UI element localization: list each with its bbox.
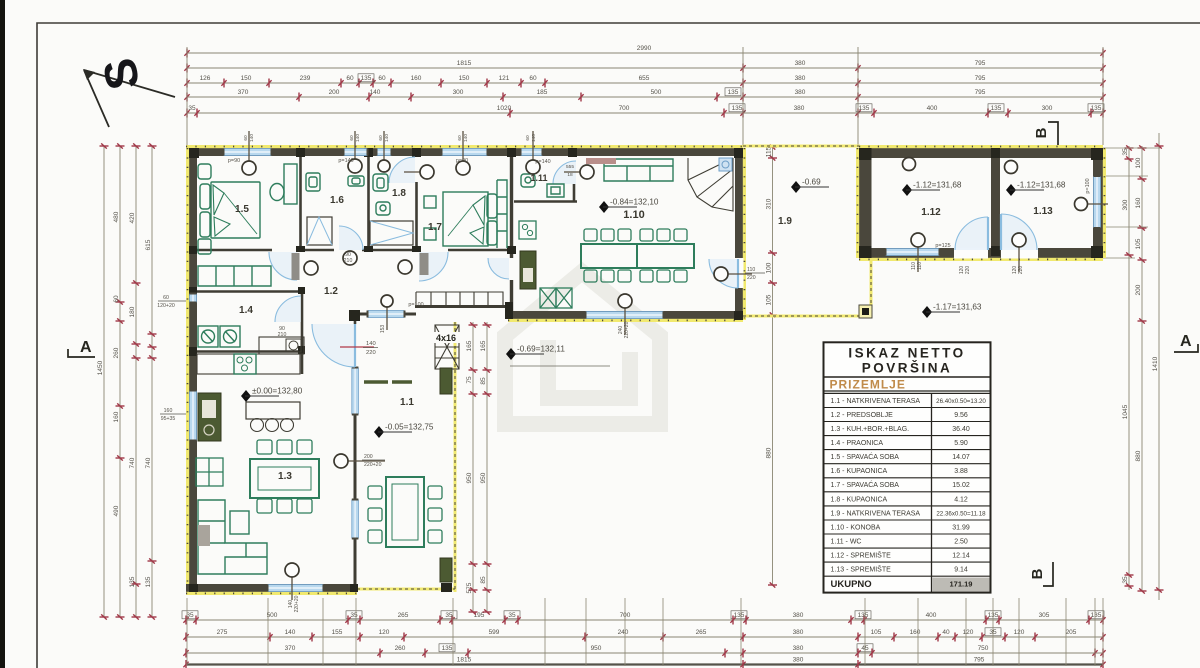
svg-text:240: 240	[618, 629, 629, 636]
interior wall 1.4 top	[195, 290, 302, 293]
svg-text:155: 155	[332, 629, 343, 636]
dimension row bottom chain2	[183, 629, 1105, 642]
svg-text:1045: 1045	[1122, 404, 1129, 419]
svg-text:85: 85	[480, 377, 487, 385]
svg-text:B: B	[1033, 127, 1050, 138]
svg-text:160: 160	[113, 411, 120, 422]
window 1.3 bottom	[267, 585, 325, 592]
svg-text:1.12: 1.12	[921, 207, 941, 218]
bed room 1.5	[211, 182, 260, 238]
svg-text:1.8 - KUPAONICA: 1.8 - KUPAONICA	[831, 496, 888, 503]
svg-text:200: 200	[364, 454, 373, 460]
svg-text:880: 880	[1135, 450, 1142, 461]
svg-text:115: 115	[765, 146, 772, 157]
elevation flag -1.17	[922, 303, 982, 319]
interior wall corridor bottom	[350, 313, 368, 316]
svg-text:95+35: 95+35	[161, 416, 176, 422]
boxed small dims	[358, 74, 374, 82]
svg-text:1.10 - KONOBA: 1.10 - KONOBA	[831, 524, 881, 531]
window 1.12 bottom	[885, 249, 941, 256]
svg-text:105: 105	[765, 294, 772, 305]
svg-text:420: 420	[129, 212, 136, 223]
sink 1.6	[348, 176, 364, 186]
svg-text:1.3 - KUH.+BOR.+BLAG.: 1.3 - KUH.+BOR.+BLAG.	[831, 426, 910, 433]
window 1.3/1.1 lower	[352, 499, 359, 540]
section marker B top	[1033, 122, 1058, 146]
svg-text:700: 700	[619, 105, 630, 112]
svg-text:950: 950	[466, 472, 473, 483]
door wc 1.11	[553, 161, 576, 184]
svg-text:135: 135	[1091, 612, 1102, 619]
svg-text:300: 300	[453, 89, 464, 96]
extension lines storage right	[1103, 147, 1160, 149]
door room 1.8	[389, 157, 415, 183]
svg-text:35: 35	[350, 612, 358, 619]
wardrobe 1.5	[198, 266, 271, 286]
svg-text:599: 599	[489, 629, 500, 636]
svg-text:380: 380	[795, 60, 806, 67]
svg-text:220+20: 220+20	[624, 321, 630, 338]
svg-text:14.07: 14.07	[952, 454, 970, 461]
storage building walls	[859, 148, 1103, 158]
svg-text:305: 305	[1039, 612, 1050, 619]
svg-text:1.8: 1.8	[392, 188, 406, 199]
bed room 1.7	[443, 192, 488, 246]
svg-text:160: 160	[411, 75, 422, 82]
svg-text:1.4: 1.4	[239, 305, 253, 316]
interior wall 1.6/1.8	[367, 156, 370, 250]
svg-text:35: 35	[445, 612, 453, 619]
kitchen hob nook 1.10	[519, 221, 536, 239]
svg-text:p=100: p=100	[408, 302, 423, 308]
svg-text:p=125: p=125	[935, 243, 950, 249]
svg-text:140: 140	[249, 134, 255, 142]
exterior wall right (konoba)	[735, 148, 743, 320]
door storage 1.12	[955, 217, 988, 250]
dimension row top 1815-380-795	[184, 60, 1105, 73]
svg-text:153: 153	[380, 325, 386, 334]
svg-text:60: 60	[243, 135, 249, 141]
svg-text:-1.17=131,63: -1.17=131,63	[933, 303, 982, 312]
terrace 1.9 corner post	[859, 305, 872, 318]
svg-text:1.11 - WC: 1.11 - WC	[831, 538, 862, 545]
svg-text:135: 135	[145, 576, 152, 587]
dimension row bottom chain3	[183, 645, 1105, 658]
dresser 1.5	[284, 164, 297, 204]
bidet 1.8	[376, 202, 390, 215]
svg-text:380: 380	[795, 89, 806, 96]
svg-text:140: 140	[355, 134, 361, 142]
svg-text:40: 40	[942, 629, 950, 636]
svg-text:1.5 - SPAVAĆA SOBA: 1.5 - SPAVAĆA SOBA	[831, 452, 900, 461]
toilet wc 1.11	[521, 174, 535, 187]
svg-text:300: 300	[1042, 105, 1053, 112]
svg-text:740: 740	[129, 457, 136, 468]
terrace posts	[440, 368, 452, 394]
svg-text:1.1 - NATKRIVENA TERASA: 1.1 - NATKRIVENA TERASA	[831, 398, 921, 405]
svg-text:480: 480	[113, 211, 120, 222]
svg-text:400: 400	[927, 105, 938, 112]
svg-text:310: 310	[765, 198, 772, 209]
svg-text:A: A	[1180, 333, 1192, 350]
svg-text:9.56: 9.56	[954, 412, 968, 419]
svg-text:210: 210	[278, 332, 287, 338]
svg-text:1.11: 1.11	[530, 173, 547, 183]
kitchen tall unit 1.3	[198, 393, 221, 441]
svg-text:795: 795	[975, 89, 986, 96]
interior wall 1.4 right	[301, 292, 304, 375]
svg-text:220: 220	[965, 266, 971, 275]
fridge unit 1.3	[196, 458, 223, 486]
wardrobe corridor	[416, 292, 503, 305]
svg-text:220: 220	[1018, 266, 1024, 275]
stair 4x16	[435, 325, 459, 369]
exterior wall bottom konoba	[508, 311, 743, 319]
svg-text:26.40x0.50=13.20: 26.40x0.50=13.20	[936, 398, 986, 405]
dimension col mid terrace-left b	[480, 322, 492, 615]
door storage 1.13	[1001, 214, 1037, 250]
svg-text:120: 120	[379, 629, 390, 636]
svg-text:120+20: 120+20	[157, 303, 175, 309]
stove 1.3	[234, 354, 256, 374]
svg-text:1450: 1450	[97, 360, 104, 375]
svg-text:35: 35	[1122, 148, 1129, 156]
dimension col mid terrace 1.9	[765, 144, 777, 587]
svg-text:135: 135	[442, 645, 453, 652]
svg-text:105: 105	[871, 629, 882, 636]
svg-text:615: 615	[145, 239, 152, 250]
elevation flag -0.05	[374, 423, 434, 439]
svg-text:-0.84=132,10: -0.84=132,10	[610, 198, 659, 207]
chairs 1.10	[584, 229, 597, 241]
svg-text:A: A	[80, 339, 92, 356]
svg-text:4x16: 4x16	[436, 333, 456, 343]
svg-text:400: 400	[926, 612, 937, 619]
wall pillars	[189, 148, 199, 158]
svg-text:1.7 - SPAVAĆA SOBA: 1.7 - SPAVAĆA SOBA	[831, 480, 900, 489]
dimension row bottom 1815	[183, 657, 1105, 668]
svg-text:-0.05=132,75: -0.05=132,75	[385, 423, 434, 432]
terrace 1.9 dashed boundary	[743, 146, 872, 316]
sofa 1.10	[604, 159, 673, 181]
svg-text:185: 185	[537, 89, 548, 96]
svg-text:380: 380	[793, 612, 804, 619]
svg-text:85: 85	[480, 576, 487, 584]
svg-text:195: 195	[474, 612, 485, 619]
svg-text:60: 60	[163, 295, 169, 301]
svg-text:5.90: 5.90	[954, 440, 968, 447]
svg-text:100: 100	[765, 262, 772, 273]
exterior wall top (house)	[186, 148, 743, 156]
svg-text:220+20: 220+20	[294, 595, 300, 612]
sofa 1.3	[198, 500, 267, 574]
extension lines top	[186, 47, 188, 145]
svg-text:220+20: 220+20	[364, 462, 382, 468]
svg-text:1020: 1020	[497, 105, 512, 112]
svg-text:150: 150	[241, 75, 252, 82]
interior wall 1.7/1.10	[510, 156, 513, 258]
svg-text:210: 210	[344, 258, 353, 264]
svg-text:950: 950	[480, 472, 487, 483]
svg-text:300: 300	[1122, 199, 1129, 210]
svg-text:380: 380	[793, 629, 804, 636]
svg-text:490: 490	[113, 505, 120, 516]
svg-text:35: 35	[1122, 576, 1129, 584]
window 1.11 top	[520, 149, 544, 156]
plant boxes 1.10	[540, 288, 572, 308]
svg-text:160: 160	[910, 629, 921, 636]
svg-text:1815: 1815	[457, 657, 472, 664]
door entrance	[312, 324, 355, 367]
dining table 1.3	[250, 459, 319, 498]
elevation flag -0.69 132,11	[506, 345, 610, 367]
tv shelf smudge 1.10	[586, 158, 616, 164]
svg-text:2.50: 2.50	[954, 538, 968, 545]
interior wall 1.3/1.1	[354, 310, 357, 324]
svg-text:880: 880	[765, 447, 772, 458]
svg-text:PRIZEMLJE: PRIZEMLJE	[830, 378, 906, 392]
area table ISKAZ NETTO POVRSINA	[824, 342, 991, 592]
interior wall 1.8/1.7	[415, 182, 418, 250]
elevation flag -0.84	[599, 198, 659, 214]
dimension col right 1410	[1152, 133, 1164, 600]
svg-text:p=100: p=100	[1085, 178, 1091, 193]
bench dashes 1.1	[364, 380, 412, 384]
svg-text:140: 140	[285, 629, 296, 636]
window corridor left	[190, 293, 197, 304]
svg-text:-0.69: -0.69	[802, 178, 821, 187]
svg-text:135: 135	[859, 105, 870, 112]
svg-text:1.6: 1.6	[330, 195, 344, 206]
svg-text:260: 260	[113, 347, 120, 358]
drain box 1.10	[719, 158, 732, 171]
section marker A left	[68, 339, 95, 357]
svg-text:165: 165	[480, 340, 487, 351]
svg-text:35: 35	[508, 612, 516, 619]
interior wall bedrooms bottom	[195, 249, 272, 252]
svg-text:p=140: p=140	[338, 158, 353, 164]
window 1.13 right	[1094, 175, 1101, 229]
dimension row top 1020-700	[184, 105, 1105, 118]
door 1.10 terrace	[709, 259, 738, 288]
svg-text:126: 126	[200, 75, 211, 82]
svg-text:p=90: p=90	[228, 158, 240, 164]
svg-text:200: 200	[1135, 284, 1142, 295]
svg-text:POVRŠINA: POVRŠINA	[862, 361, 953, 376]
door room 1.7	[419, 252, 448, 281]
window 1.7 top	[441, 149, 489, 156]
svg-text:1.7: 1.7	[428, 222, 442, 233]
svg-text:950: 950	[591, 645, 602, 652]
chairs 1.1	[368, 486, 382, 499]
interior wall 1.5/1.6	[299, 156, 302, 250]
terrace 1.1 dashed boundary	[357, 322, 455, 592]
svg-text:1.2 - PREDSOBLJE: 1.2 - PREDSOBLJE	[831, 412, 894, 419]
svg-text:740: 740	[145, 457, 152, 468]
svg-text:2990: 2990	[637, 45, 652, 52]
svg-text:275: 275	[217, 629, 228, 636]
elevation flag -1.12 b	[1006, 181, 1066, 197]
wardrobe 1.7	[497, 180, 507, 248]
svg-text:110: 110	[747, 267, 755, 273]
svg-text:1.12 - SPREMIŠTE: 1.12 - SPREMIŠTE	[831, 551, 892, 560]
svg-text:1.5: 1.5	[235, 204, 249, 215]
svg-text:15.02: 15.02	[952, 482, 970, 489]
dimension col left 1450	[97, 143, 109, 619]
svg-text:1.9: 1.9	[778, 216, 792, 227]
door room 1.5	[269, 252, 297, 280]
dimension col right 100-chain	[1135, 145, 1147, 593]
svg-text:p=140: p=140	[535, 159, 550, 165]
window 1.3 left	[190, 390, 197, 442]
svg-text:9.14: 9.14	[954, 567, 968, 574]
window 1.3/1.1 upper	[352, 367, 359, 416]
section marker A right	[1174, 333, 1198, 352]
svg-text:1.3: 1.3	[278, 471, 292, 482]
dimension row top 370-chain	[184, 89, 1105, 102]
svg-text:205: 205	[1066, 629, 1077, 636]
svg-text:1.1: 1.1	[400, 397, 414, 408]
svg-text:795: 795	[974, 657, 985, 664]
washing machines 1.4	[198, 326, 240, 347]
svg-text:UKUPNO: UKUPNO	[831, 579, 872, 590]
elevation flag -1.12 a	[902, 181, 962, 197]
svg-text:12.14: 12.14	[952, 553, 970, 560]
svg-text:1815: 1815	[457, 60, 472, 67]
svg-text:1.13: 1.13	[1033, 206, 1053, 217]
storage partition wall	[991, 158, 1000, 248]
svg-text:ISKAZ NETTO: ISKAZ NETTO	[848, 346, 965, 361]
svg-text:-1.12=131,68: -1.12=131,68	[913, 181, 962, 190]
svg-text:750: 750	[978, 645, 989, 652]
svg-text:35: 35	[186, 612, 194, 619]
svg-text:1.13 - SPREMIŠTE: 1.13 - SPREMIŠTE	[831, 565, 892, 574]
window 1.5 top	[223, 149, 273, 156]
svg-text:555: 555	[566, 164, 574, 170]
sink wc 1.11	[547, 184, 564, 197]
dimension col left 420-chain	[129, 143, 141, 619]
dimension col mid terrace-left a	[466, 322, 478, 615]
shower 1.6	[306, 173, 320, 191]
window 1.10 bottom	[585, 312, 665, 319]
svg-text:B: B	[1029, 568, 1046, 579]
svg-text:1.2: 1.2	[324, 286, 338, 297]
svg-text:135: 135	[732, 105, 743, 112]
dimension row top 2990	[184, 45, 1105, 58]
svg-text:60: 60	[457, 135, 463, 141]
svg-text:18: 18	[567, 172, 573, 178]
svg-text:60: 60	[349, 135, 355, 141]
window 1.6 top	[343, 149, 369, 156]
svg-text:100: 100	[1135, 157, 1142, 168]
svg-text:60: 60	[529, 75, 537, 82]
svg-text:795: 795	[975, 60, 986, 67]
svg-text:140: 140	[463, 134, 469, 142]
svg-text:380: 380	[794, 105, 805, 112]
svg-text:135: 135	[129, 576, 136, 587]
svg-text:135: 135	[858, 612, 869, 619]
svg-text:22.36x0.50=11.18: 22.36x0.50=11.18	[936, 510, 986, 517]
svg-text:110: 110	[917, 262, 923, 270]
svg-text:140: 140	[384, 134, 390, 142]
exterior wall bottom left wing	[186, 584, 357, 592]
north arrow S	[83, 54, 175, 127]
door 1.4	[275, 296, 301, 322]
svg-text:180: 180	[129, 306, 136, 317]
svg-text:121: 121	[499, 75, 510, 82]
svg-text:380: 380	[795, 75, 806, 82]
svg-text:60: 60	[346, 75, 354, 82]
svg-text:75: 75	[466, 376, 473, 384]
svg-text:120: 120	[963, 629, 974, 636]
svg-text:1410: 1410	[1152, 356, 1159, 371]
svg-text:380: 380	[793, 657, 804, 664]
svg-text:265: 265	[696, 629, 707, 636]
dimension col left 615-chain	[145, 143, 157, 619]
door room 1.6	[339, 226, 363, 250]
svg-text:135: 135	[1091, 105, 1102, 112]
svg-text:60: 60	[525, 135, 531, 141]
svg-text:1.4 - PRAONICA: 1.4 - PRAONICA	[831, 440, 884, 447]
window 1.8 top	[376, 149, 393, 156]
shower tray 1.6	[307, 217, 332, 245]
svg-text:370: 370	[285, 645, 296, 652]
dimension col right 1045	[1122, 145, 1134, 590]
dimension row bottom chain1	[183, 612, 1105, 625]
interior wall wc 1.11	[514, 200, 577, 203]
svg-text:1.10: 1.10	[623, 209, 644, 221]
svg-text:370: 370	[238, 89, 249, 96]
svg-text:171.19: 171.19	[950, 580, 973, 589]
chairs 1.3	[257, 440, 272, 454]
dimension col left 480-chain	[113, 143, 125, 619]
svg-text:220: 220	[747, 275, 756, 281]
interior wall 1.4 bottom	[189, 350, 304, 353]
svg-text:655: 655	[639, 75, 650, 82]
svg-text:795: 795	[975, 75, 986, 82]
svg-text:p=90: p=90	[456, 158, 468, 164]
laundry counter sink	[259, 337, 304, 354]
svg-text:150: 150	[459, 75, 470, 82]
svg-text:500: 500	[651, 89, 662, 96]
svg-text:-1.12=131,68: -1.12=131,68	[1017, 181, 1066, 190]
svg-text:4.12: 4.12	[954, 496, 968, 503]
toilet 1.8 top	[373, 174, 388, 191]
svg-text:239: 239	[300, 75, 311, 82]
svg-text:60: 60	[378, 135, 384, 141]
sofa pillow grey	[198, 525, 210, 546]
dining table 1.10	[581, 244, 694, 268]
window markers circles	[248, 131, 250, 161]
svg-text:3.88: 3.88	[954, 468, 968, 475]
svg-text:±0.00=132,80: ±0.00=132,80	[252, 387, 303, 396]
elevation flag 0.00	[241, 387, 303, 403]
svg-text:35: 35	[188, 105, 196, 112]
svg-text:31.99: 31.99	[952, 524, 970, 531]
svg-text:135: 135	[361, 75, 372, 82]
door gaps in exterior walls	[954, 248, 988, 259]
svg-text:265: 265	[398, 612, 409, 619]
svg-text:36.40: 36.40	[952, 426, 970, 433]
svg-text:60: 60	[113, 295, 120, 303]
svg-text:575: 575	[466, 582, 473, 593]
island 1.3	[246, 402, 300, 419]
svg-text:140: 140	[531, 134, 537, 142]
svg-text:105: 105	[1135, 238, 1142, 249]
svg-text:165: 165	[466, 340, 473, 351]
svg-text:140: 140	[370, 89, 381, 96]
section marker B bottom	[1029, 562, 1053, 586]
